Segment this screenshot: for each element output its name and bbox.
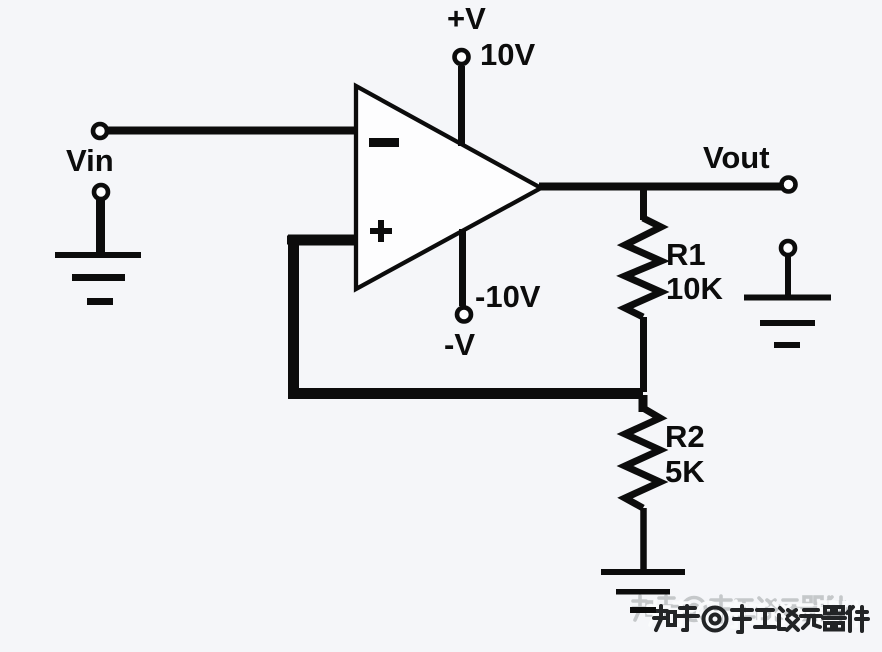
ground (R2 return) [601,569,685,613]
wire R2 to ground [640,508,647,572]
wire feedback node to R2 [639,395,648,412]
wire +V to op-amp positive supply pin [458,66,465,146]
node -V supply terminal [457,308,471,322]
node Vin source terminal [94,185,108,199]
node Vin terminal [93,124,107,138]
wire Vout reference to ground [785,256,791,296]
wire op-amp non-inverting input stub [287,236,358,245]
wire R1 to feedback node [640,317,647,392]
op-amp U1 [356,86,541,289]
svg-text:Vout: Vout [703,140,770,175]
svg-text:Vin: Vin [66,143,114,178]
svg-text:5K: 5K [665,454,705,489]
wire op-amp output to Vout [539,183,782,191]
ground (output reference) [744,295,831,349]
svg-text:-V: -V [444,327,475,362]
svg-text:10K: 10K [666,271,723,306]
svg-text:-10V: -10V [475,279,541,314]
svg-text:10V: 10V [480,37,535,72]
node Vout reference terminal [781,241,795,255]
wire Vin source to ground [96,199,105,254]
resistor R1 [625,218,661,317]
svg-text:R2: R2 [665,419,705,454]
ground (input) [55,252,141,305]
wire op-amp negative supply pin to -V [459,229,466,306]
node +V supply terminal [455,50,469,64]
resistor R2 [625,408,660,508]
svg-text:+V: +V [447,1,486,36]
node Vout terminal [782,178,796,192]
svg-text:R1: R1 [666,237,706,272]
wire feedback from node to op-amp non-inverting input [294,240,644,394]
wire Vin to op-amp inverting input [107,127,358,135]
wire output node to R1 [640,188,647,220]
